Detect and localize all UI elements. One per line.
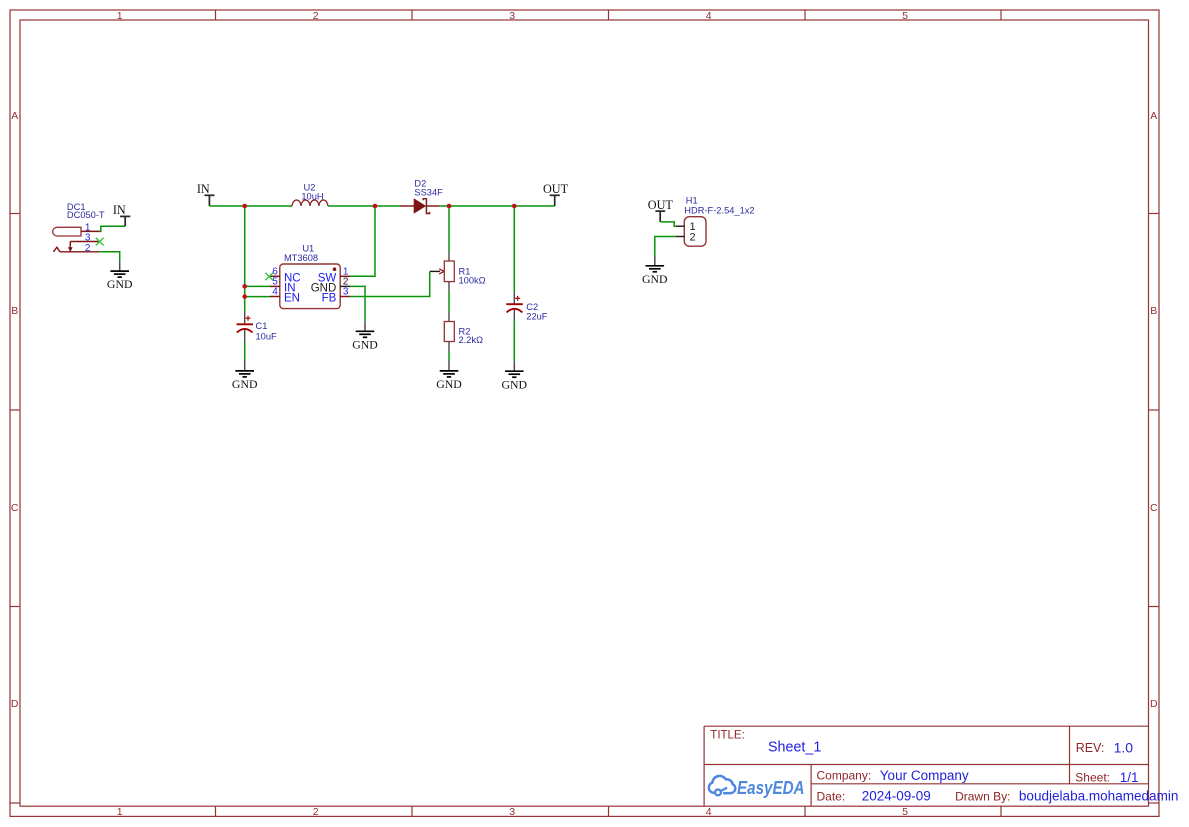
svg-text:B: B (11, 305, 18, 317)
svg-text:MT3608: MT3608 (284, 253, 318, 263)
svg-text:1: 1 (117, 10, 123, 22)
ground at C1 (232, 361, 258, 391)
wire IN rail to inductor (209, 205, 292, 207)
ground at H1 (642, 256, 668, 286)
junction IN rail / C1 branch (242, 204, 247, 209)
resistor R1 100k (potentiometer) (444, 206, 485, 292)
svg-text:SS34F: SS34F (414, 187, 443, 197)
wire diode to OUT flag (439, 205, 554, 207)
no-connect X on U1 pin 6 (265, 273, 273, 281)
svg-text:4: 4 (272, 287, 278, 298)
svg-text:Drawn By:: Drawn By: (955, 789, 1010, 803)
svg-text:C1: C1 (256, 321, 268, 331)
junction U1 IN pin (242, 284, 247, 289)
wire C2 branch (513, 206, 515, 293)
net flag OUT (at H1) (648, 198, 674, 222)
resistor R2 2.2k (444, 312, 483, 352)
wire U1 FB to R1 wiper (350, 272, 429, 297)
ground at U1 (352, 321, 378, 351)
svg-text:2: 2 (313, 10, 319, 22)
wire to U1 EN pin (245, 296, 270, 298)
svg-text:2: 2 (689, 232, 695, 244)
svg-text:Your Company: Your Company (880, 768, 969, 783)
connector H1 HDR-F-2.54_1x2 (676, 196, 755, 247)
svg-text:C: C (11, 502, 19, 514)
svg-text:Company:: Company: (817, 769, 872, 783)
wire U1 GND pin to ground (350, 286, 365, 321)
svg-text:REV:: REV: (1076, 741, 1105, 755)
svg-text:TITLE:: TITLE: (710, 730, 745, 742)
svg-text:10uF: 10uF (256, 331, 278, 341)
wire C2 to ground (513, 321, 515, 362)
junction R1 branch (447, 204, 452, 209)
svg-text:Sheet_1: Sheet_1 (768, 740, 821, 756)
svg-text:1: 1 (117, 806, 123, 818)
svg-text:4: 4 (706, 10, 712, 22)
svg-text:3: 3 (509, 10, 515, 22)
svg-text:22uF: 22uF (526, 312, 548, 322)
svg-text:IN: IN (113, 203, 126, 217)
svg-text:2.2kΩ: 2.2kΩ (459, 335, 484, 345)
svg-text:A: A (1150, 110, 1157, 122)
connector DC1 DC050-T barrel jack (53, 202, 105, 254)
no-connect X on DC1 pin 3 (96, 238, 104, 246)
ground at C2 (502, 361, 528, 391)
wire to U1 IN pin (245, 285, 270, 287)
svg-text:IN: IN (197, 182, 210, 196)
svg-text:100kΩ: 100kΩ (459, 276, 486, 286)
svg-text:C2: C2 (526, 302, 538, 312)
svg-text:Date:: Date: (817, 789, 846, 803)
svg-text:HDR-F-2.54_1x2: HDR-F-2.54_1x2 (684, 205, 754, 215)
svg-text:DC050-T: DC050-T (67, 210, 105, 220)
svg-text:A: A (11, 110, 18, 122)
svg-text:OUT: OUT (648, 198, 674, 212)
wire OUT flag to H1 pin1 (660, 222, 675, 226)
svg-text:FB: FB (322, 293, 337, 305)
diode D2 SS34F (400, 179, 443, 214)
svg-text:D: D (1150, 698, 1158, 710)
wire R1 to R2 (448, 292, 450, 312)
TITLE BLOCK (704, 726, 1148, 806)
capacitor C1 10uF (237, 312, 278, 342)
ground at R2 (436, 361, 462, 391)
svg-text:EasyEDA: EasyEDA (737, 778, 805, 798)
svg-text:5: 5 (902, 10, 908, 22)
wire DC1 pin1 to IN net flag (100, 226, 126, 231)
svg-text:boudjelaba.mohamedamin: boudjelaba.mohamedamin (1019, 789, 1179, 804)
net flag OUT (top rail) (543, 182, 569, 206)
junction C2 branch (512, 204, 517, 209)
svg-text:OUT: OUT (543, 182, 569, 196)
svg-text:C: C (1150, 502, 1158, 514)
svg-text:5: 5 (902, 806, 908, 818)
op-amp U1 MT3608 (270, 243, 350, 308)
svg-text:U1: U1 (302, 243, 314, 253)
svg-text:EN: EN (284, 293, 300, 305)
ground at DC1 (107, 261, 133, 291)
wire H1 pin2 to ground (655, 237, 676, 256)
svg-text:3: 3 (509, 806, 515, 818)
svg-text:D: D (11, 698, 19, 710)
wire U1 SW to rail riser (350, 206, 375, 276)
capacitor C2 22uF (506, 293, 548, 322)
junction SW riser (373, 204, 378, 209)
wire IN branch vertical to C1 (244, 206, 246, 312)
svg-text:10uH: 10uH (301, 192, 323, 202)
svg-text:Sheet:: Sheet: (1075, 771, 1110, 785)
svg-text:2024-09-09: 2024-09-09 (862, 789, 931, 804)
svg-text:4: 4 (706, 806, 712, 818)
wire inductor to diode (328, 205, 400, 207)
svg-text:3: 3 (343, 287, 349, 298)
wire DC1 pin2 to GND (99, 252, 119, 261)
junction U1 EN pin (242, 294, 247, 299)
svg-text:2: 2 (313, 806, 319, 818)
svg-text:1/1: 1/1 (1120, 770, 1139, 785)
net flag IN (top rail) (197, 182, 215, 206)
inductor U2 10uH (292, 182, 328, 206)
wire C1 to ground (244, 342, 246, 361)
net flag IN (at DC1) (113, 203, 130, 226)
wire R2 to ground (448, 351, 450, 361)
svg-text:1.0: 1.0 (1114, 739, 1134, 755)
svg-text:H1: H1 (686, 196, 698, 206)
svg-text:2: 2 (85, 243, 91, 254)
svg-text:B: B (1150, 305, 1157, 317)
pin 1 dot marker (333, 267, 337, 271)
R1 wiper lead and arrow (430, 269, 445, 274)
